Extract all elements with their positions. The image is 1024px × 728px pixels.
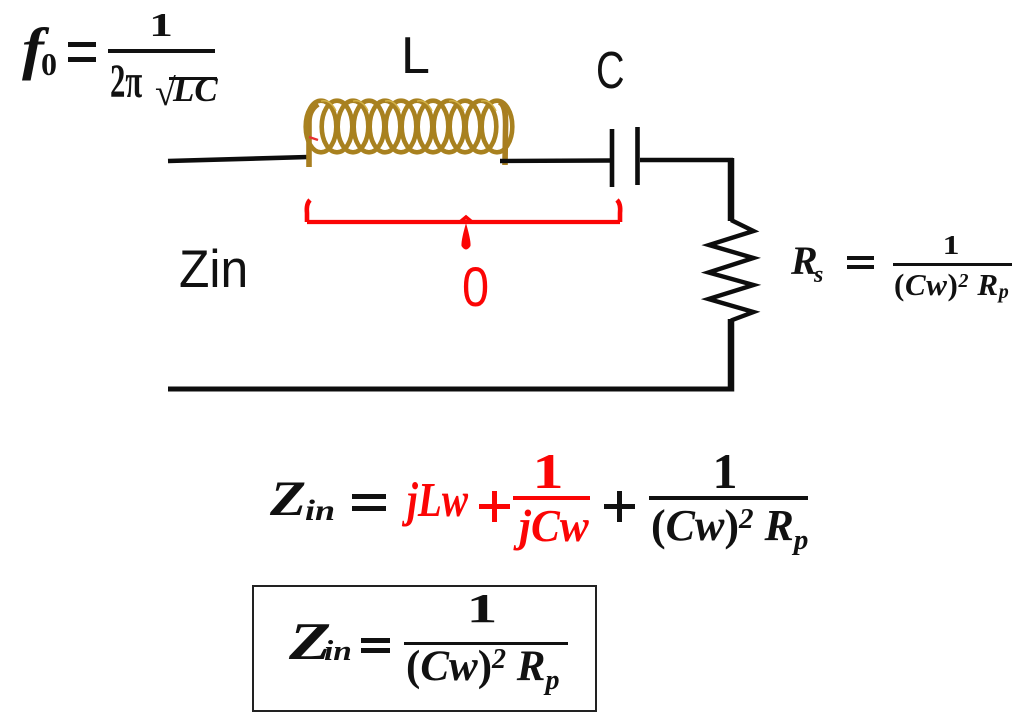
- brace center pointer: [461, 223, 470, 250]
- wire coil to capacitor: [500, 158, 610, 163]
- wire right vertical bottom: [728, 319, 735, 392]
- label Rs = 1/((Cw)^2 Rp): [0, 0, 1024, 1]
- node Zin label: [179, 243, 248, 296]
- label 0 (red): [462, 259, 489, 315]
- label L: [401, 30, 430, 82]
- equation Zin = jLw + 1/jCw + 1/((Cw)^2 Rp): [0, 0, 1024, 1]
- label C: [596, 45, 625, 97]
- resistor Rs zigzag: [709, 220, 754, 321]
- boxed equation Zin = 1/((Cw)^2 Rp): [252, 585, 597, 712]
- wire right vertical top: [728, 158, 735, 221]
- capacitor C plate 1: [610, 129, 615, 187]
- red brace under L and C: [307, 200, 620, 222]
- capacitor C plate 2: [635, 127, 640, 185]
- wire capacitor to corner: [640, 158, 733, 163]
- wire bottom return: [168, 387, 734, 392]
- wire left lead: [168, 157, 308, 161]
- red mark artifact on coil: [309, 137, 318, 140]
- formula f0 = 1/(2 pi sqrt(LC)): [0, 0, 1024, 1]
- inductor L: [306, 101, 513, 167]
